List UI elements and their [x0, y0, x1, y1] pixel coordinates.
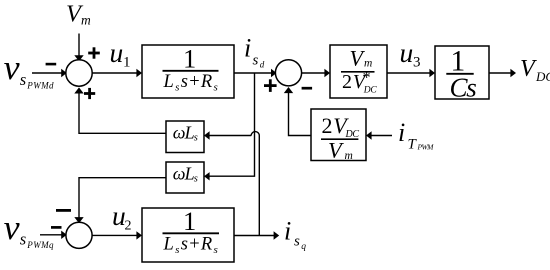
svg-text:u: u	[400, 37, 414, 68]
svg-text:1: 1	[183, 206, 196, 236]
svg-text:PWMd: PWMd	[26, 80, 54, 90]
sign minus (feedback into S2)	[302, 87, 313, 90]
svg-text:PWM: PWM	[417, 142, 435, 151]
wire vs_PWMd to summing junction S1	[32, 69, 67, 77]
wire i_sq branch up with hop into G4a	[204, 131, 259, 235]
block G3 transfer 1/(Cs)	[435, 45, 489, 102]
wire S3 to block G6	[92, 231, 142, 239]
svg-text:i: i	[244, 34, 251, 63]
svg-text:DC: DC	[535, 69, 550, 84]
svg-text:*: *	[363, 69, 371, 86]
wire G3 to output VDC	[489, 69, 516, 77]
svg-text:m: m	[345, 150, 353, 162]
summing junction S1	[66, 60, 92, 86]
svg-text:Lss+Rs: Lss+Rs	[163, 72, 220, 94]
wire G1 to summing junction S2	[234, 69, 277, 77]
wire iT_PWM into G5	[366, 131, 392, 139]
svg-text:d: d	[260, 59, 265, 69]
svg-text:DC: DC	[363, 86, 378, 96]
svg-text:V: V	[328, 138, 344, 163]
summing junction S2	[275, 60, 301, 86]
svg-text:q: q	[301, 242, 306, 252]
svg-text:s: s	[294, 234, 300, 250]
wire G4b to summing junction S3	[74, 178, 166, 224]
wire G6 to output i_sq	[234, 231, 279, 239]
svg-text:Lss+Rs: Lss+Rs	[163, 234, 220, 256]
svg-text:v: v	[4, 48, 20, 87]
wire Vm down into summing junction S1	[74, 34, 83, 62]
svg-text:s: s	[20, 229, 26, 248]
summing junction S3	[66, 222, 92, 248]
block G1 transfer 1/(Ls s + Rs) d-axis	[142, 44, 234, 98]
svg-text:1: 1	[123, 55, 131, 71]
wire G4a to summing junction S1	[74, 87, 166, 133]
svg-text:i: i	[284, 217, 291, 246]
block G6 transfer 1/(Ls s + Rs) q-axis	[142, 206, 234, 262]
svg-text:m: m	[364, 58, 372, 70]
block G4a omega Ls (top, i_sq cross-coupling)	[166, 121, 204, 153]
wire S2 to block G2	[301, 69, 330, 77]
sign minus (vs_PWMq into S3)	[51, 226, 62, 229]
svg-text:V: V	[520, 56, 537, 82]
sign minus (vs_PWMd into S1)	[46, 63, 57, 66]
sign plus (Vm into S1)	[88, 47, 100, 58]
svg-text:v: v	[4, 208, 20, 247]
sign plus (feedback into S1)	[84, 88, 95, 99]
block G2 transfer Vm/(2V*DC)	[330, 45, 387, 98]
block G4b omega Ls (bottom, i_sd cross-coupling)	[166, 162, 204, 193]
wire vs_PWMq to summing junction S3	[40, 231, 67, 239]
svg-text:s: s	[253, 53, 259, 69]
wire i_sd branch down to block G4b (omega Ls bottom)	[204, 73, 255, 181]
wire G5 to summing junction S2	[284, 87, 311, 136]
svg-text:2: 2	[125, 219, 132, 234]
svg-text:Cs: Cs	[450, 73, 477, 103]
wire S1 to block G1	[92, 69, 142, 77]
svg-text:i: i	[398, 118, 405, 147]
svg-text:PWMq: PWMq	[26, 240, 54, 250]
wire G2 to block G3	[387, 69, 435, 77]
sign minus (G4b feedback into S3)	[56, 209, 71, 212]
svg-text:1: 1	[183, 44, 196, 74]
block G5 transfer 2VDC/Vm	[311, 109, 366, 163]
svg-text:3: 3	[413, 55, 421, 71]
svg-text:s: s	[20, 70, 26, 89]
svg-text:DC: DC	[345, 129, 360, 140]
svg-text:u: u	[110, 37, 124, 68]
sign plus (i_sd into S2)	[264, 79, 277, 92]
